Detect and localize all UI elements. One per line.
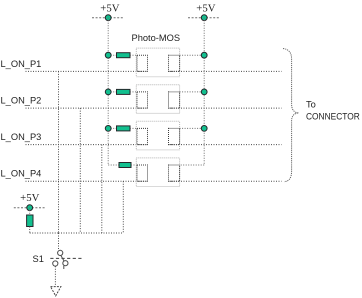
brace to connector — [283, 49, 299, 182]
wire bottom bus horizontal — [59, 232, 124, 234]
wire drop from L_ON_P1 to bus — [58, 71, 60, 233]
node rail right row 2 — [201, 89, 207, 95]
wire drop from L_ON_P4 to bus — [122, 181, 124, 233]
switch S1 throw contact right — [63, 261, 68, 269]
svg-text:L_ON_P3: L_ON_P3 — [1, 132, 42, 142]
svg-text:Photo-MOS: Photo-MOS — [132, 33, 181, 43]
svg-text:+5V: +5V — [20, 193, 40, 204]
wire left rail to R4 resistor — [108, 164, 119, 166]
label Photo-MOS — [132, 33, 181, 43]
switch S1 dashed actuator line — [50, 257, 83, 259]
wire +5V node to resistor R5 — [29, 208, 31, 215]
U2 input LED element — [137, 92, 148, 108]
wire U4 pin 3 to connector — [169, 180, 282, 182]
wire +5V bottom bar — [14, 207, 46, 209]
ground symbol — [51, 287, 61, 296]
wire L_ON_P4 horizontal — [26, 180, 148, 182]
wire left +5V rail vertical — [107, 18, 109, 165]
wire U1 pin 4 to +5V rail — [180, 54, 205, 56]
power +5V left top label — [100, 3, 120, 14]
svg-text:+5V: +5V — [196, 3, 216, 14]
op-amp U3 photo-MOS package — [136, 121, 179, 150]
label net L_ON_P3 — [1, 132, 42, 142]
svg-text:L_ON_P2: L_ON_P2 — [1, 96, 42, 106]
wire resistor R3 to U3 pin 1 — [130, 127, 137, 129]
wire resistor R4 to U4 pin 1 — [131, 164, 137, 166]
node rail left row 2 — [105, 89, 111, 95]
wire resistor R2 to U2 pin 1 — [130, 91, 137, 93]
wire drop from L_ON_P2 to bus — [79, 108, 81, 233]
label S1 — [33, 254, 44, 264]
node rail right row 1 — [201, 52, 207, 58]
resistor R5 pull-up vertical — [27, 215, 33, 227]
wire U3 pin 3 to connector — [169, 144, 282, 146]
wire rail to resistor R2 — [108, 91, 116, 93]
wire U1 pin 3 to connector — [169, 70, 282, 72]
wire resistor R1 to U1 pin 1 — [130, 54, 137, 56]
resistor R2 — [117, 89, 131, 94]
svg-text:To: To — [306, 100, 316, 110]
wire rail to resistor R1 — [108, 54, 116, 56]
op-amp U1 photo-MOS package — [136, 48, 179, 77]
node rail left row 1 — [105, 52, 111, 58]
wire U3 pin 4 to +5V rail — [180, 127, 205, 129]
node +5V left junction — [105, 15, 111, 21]
svg-text:L_ON_P1: L_ON_P1 — [1, 59, 42, 69]
wire +5V left top bar — [92, 17, 124, 19]
U1 output MOS element — [169, 55, 180, 71]
wire U2 pin 3 to connector — [169, 107, 282, 109]
power +5V bottom label — [20, 193, 40, 204]
wire U2 pin 4 to +5V rail — [180, 91, 205, 93]
U3 input LED element — [137, 128, 148, 144]
wire drop from L_ON_P3 to bus — [101, 145, 103, 233]
wire resistor R5 to bus — [30, 227, 59, 234]
switch S1 lever — [61, 255, 64, 261]
U3 output MOS element — [169, 128, 180, 144]
svg-text:CONNECTOR: CONNECTOR — [306, 112, 360, 122]
wire L_ON_P2 horizontal — [26, 107, 148, 109]
wire switch to ground — [54, 266, 56, 286]
svg-text:L_ON_P4: L_ON_P4 — [1, 169, 42, 179]
svg-text:+5V: +5V — [100, 3, 120, 14]
wire right +5V rail vertical — [203, 18, 205, 165]
node +5V right junction — [201, 15, 207, 21]
resistor R4 — [119, 163, 131, 168]
resistor R1 — [117, 53, 131, 58]
op-amp U2 photo-MOS package — [136, 85, 179, 114]
svg-text:S1: S1 — [33, 254, 44, 264]
power +5V right top label — [196, 3, 216, 14]
U4 input LED element — [137, 165, 148, 181]
U2 output MOS element — [169, 92, 180, 108]
U4 output MOS element — [169, 165, 180, 181]
node +5V bottom junction — [27, 205, 33, 211]
wire +5V right top bar — [188, 17, 220, 19]
label net L_ON_P4 — [1, 169, 42, 179]
wire bus to switch S1 — [58, 233, 60, 250]
wire rail to resistor R3 — [108, 127, 116, 129]
switch S1 common contact — [58, 250, 63, 255]
node rail right row 3 — [201, 125, 207, 131]
label net L_ON_P2 — [1, 96, 42, 106]
node rail left row 3 — [105, 125, 111, 131]
wire L_ON_P3 horizontal — [26, 144, 148, 146]
wire right rail to U4 pin — [180, 164, 205, 166]
op-amp U4 photo-MOS package — [136, 158, 179, 187]
wire L_ON_P1 horizontal — [26, 70, 148, 72]
label To CONNECTOR — [306, 100, 360, 122]
switch S1 throw contact left — [53, 261, 58, 266]
resistor R3 — [117, 126, 131, 131]
U1 input LED element — [137, 55, 148, 71]
label net L_ON_P1 — [1, 59, 42, 69]
